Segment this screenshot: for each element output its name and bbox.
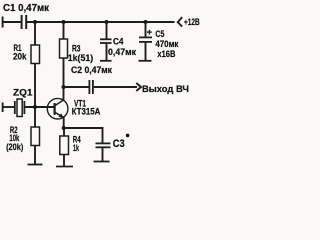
- svg-text:С3: С3: [113, 138, 125, 150]
- svg-text:+12В: +12В: [184, 17, 200, 28]
- wire: C4 bottom lead: [106, 43, 108, 61]
- wire: R2 bottom lead: [34, 146, 36, 165]
- ground bar under C4: [100, 60, 112, 62]
- svg-text:ZQ1: ZQ1: [13, 87, 33, 97]
- wire: C3 bottom lead: [102, 148, 104, 162]
- node: rail / C5 junction: [144, 20, 148, 24]
- svg-text:20k: 20k: [13, 52, 27, 62]
- capacitor C2: [89, 80, 93, 94]
- wire: C2 left lead: [64, 86, 90, 88]
- capacitor C1: [22, 15, 27, 29]
- wire: emitter lead down: [63, 117, 65, 128]
- ground bar under R2: [28, 164, 43, 166]
- wire: R3 bottom lead to collector: [63, 58, 65, 101]
- svg-text:0,47мк: 0,47мк: [108, 47, 136, 57]
- +12V supply terminal chevron: [178, 17, 183, 27]
- wire: C2 to output terminal: [94, 86, 137, 88]
- wire: ZQ1 left stub: [2, 106, 14, 108]
- capacitor C5 (electrolytic): [139, 37, 152, 42]
- resistor R4: [60, 136, 69, 155]
- label C1 value: [0, 0, 1, 1]
- svg-text:1k: 1k: [73, 143, 80, 153]
- svg-text:С2 0,47мк: С2 0,47мк: [71, 65, 112, 75]
- svg-text:R3: R3: [72, 43, 81, 53]
- wire: R1 top lead: [34, 22, 36, 45]
- node: base / R1 / R2 junction: [33, 105, 37, 109]
- ground bar under C3: [94, 161, 110, 163]
- resistor R1: [31, 45, 40, 64]
- wire: +12V top rail: [27, 21, 175, 23]
- transistor VT1: [47, 98, 68, 119]
- ground bar under R4: [56, 166, 73, 168]
- label C3 asterisk: [126, 134, 130, 138]
- wire: input stub from left terminal to C1: [2, 21, 21, 23]
- svg-text:(20k): (20k): [6, 142, 23, 152]
- C5 polarity plus sign: [147, 30, 152, 35]
- wire: R1 bottom lead down to base node: [34, 64, 36, 108]
- input terminal bar (left of C1): [2, 17, 4, 28]
- ground bar under C5: [139, 60, 152, 62]
- svg-text:Выход ВЧ: Выход ВЧ: [142, 84, 189, 94]
- wire: R2 top lead: [34, 107, 36, 127]
- svg-text:470мк: 470мк: [155, 39, 178, 49]
- svg-text:1k(51): 1k(51): [68, 53, 94, 63]
- output terminal arrow: [136, 83, 141, 91]
- svg-text:КТ315А: КТ315А: [72, 106, 101, 116]
- resistor R2: [31, 127, 40, 146]
- wire: emitter node to C3: [64, 128, 103, 143]
- wire: C4 top lead: [106, 22, 108, 39]
- svg-text:С1 0,47мк: С1 0,47мк: [3, 3, 50, 14]
- node: rail / C4 junction: [105, 20, 109, 24]
- quartz crystal ZQ1: [15, 99, 25, 117]
- wire: R3 top lead: [63, 22, 65, 39]
- wire: C5 bottom lead: [145, 42, 147, 61]
- node: rail / R3 junction: [62, 20, 66, 24]
- capacitor C4: [100, 39, 112, 43]
- svg-text:С4: С4: [113, 36, 124, 46]
- terminal bar (left of ZQ1): [2, 103, 4, 113]
- node: collector / C2 junction: [62, 85, 66, 89]
- wire: C5 top lead: [145, 22, 147, 37]
- wire: R4 top lead: [63, 128, 65, 136]
- node: rail / R1 junction: [33, 20, 37, 24]
- wire: ZQ1 to base node: [25, 106, 54, 108]
- svg-text:х16В: х16В: [157, 49, 175, 59]
- node: emitter / R4 / C3 junction: [62, 126, 66, 130]
- svg-text:С5: С5: [155, 29, 164, 39]
- resistor R3: [60, 39, 68, 58]
- wire: R4 bottom lead: [63, 155, 65, 167]
- capacitor C3: [96, 143, 111, 147]
